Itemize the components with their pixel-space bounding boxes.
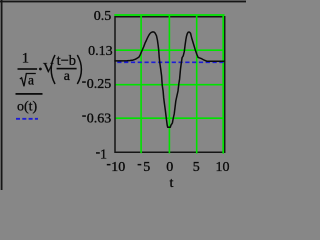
region border top — [0, 1, 246, 3]
trace o(t): blue dashed zero line — [117, 61, 223, 63]
gridline right edge x=10 — [222, 15, 224, 154]
svg-text:10: 10 — [216, 160, 230, 175]
svg-text:5: 5 — [143, 160, 150, 175]
svg-text:10: 10 — [111, 160, 125, 175]
gridline y=-0.25 — [115, 84, 224, 86]
svg-text:0.13: 0.13 — [88, 44, 113, 59]
plot frame — [115, 17, 225, 152]
svg-text:o(t): o(t) — [17, 99, 38, 114]
svg-text:0.5: 0.5 — [94, 9, 112, 24]
svg-text:t−b: t−b — [57, 53, 76, 69]
formula right paren — [77, 55, 81, 84]
svg-text:1: 1 — [22, 51, 29, 67]
gridline y=-0.63 — [115, 117, 224, 119]
svg-text:0: 0 — [166, 160, 173, 175]
formula fraction bar 1 — [18, 68, 38, 70]
gridline top edge y=0.5 — [114, 14, 224, 16]
gridline y=0.13 — [115, 49, 224, 51]
svg-text:0.25: 0.25 — [87, 77, 112, 92]
formula left paren — [51, 55, 55, 84]
svg-text:t: t — [170, 176, 174, 190]
formula fraction bar 2 — [57, 68, 77, 70]
legend trace 1 solid line sample — [16, 93, 43, 95]
formula multiply dot — [39, 68, 42, 71]
svg-text:5: 5 — [193, 160, 200, 175]
svg-text:1: 1 — [100, 147, 107, 162]
legend trace 2 dashed sample — [16, 118, 38, 120]
formula radical sqrt sign — [20, 74, 36, 87]
gridline x=5 — [196, 16, 198, 154]
svg-text:a: a — [28, 72, 34, 87]
trace 1: wavelet curve — [115, 32, 224, 127]
gridline x=-5 — [140, 16, 142, 154]
svg-text:0.63: 0.63 — [87, 111, 112, 126]
gridline x=0 — [168, 16, 170, 154]
svg-text:a: a — [64, 69, 71, 84]
region border left — [1, 0, 3, 190]
